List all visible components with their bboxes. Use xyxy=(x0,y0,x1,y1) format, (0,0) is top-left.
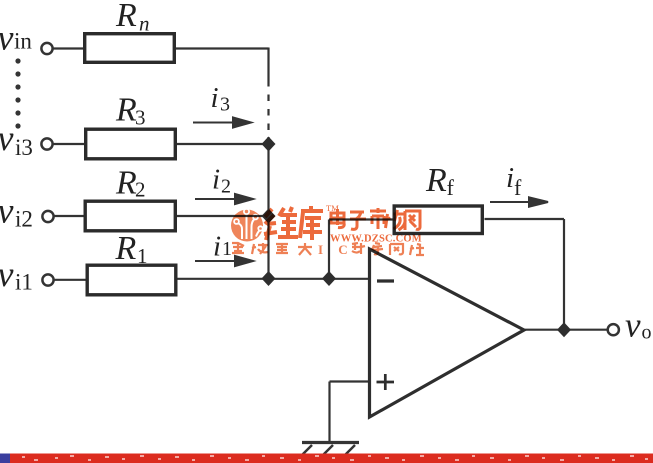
svg-text:R: R xyxy=(425,162,447,199)
svg-text:i: i xyxy=(211,82,219,114)
svg-text:2: 2 xyxy=(135,178,146,202)
svg-text:v: v xyxy=(0,254,14,294)
svg-text:f: f xyxy=(447,175,455,200)
svg-text:3: 3 xyxy=(135,106,146,130)
svg-text:R: R xyxy=(115,165,137,202)
svg-text:i: i xyxy=(506,162,514,194)
svg-text:in: in xyxy=(14,29,32,54)
svg-text:v: v xyxy=(0,118,14,158)
svg-text:1: 1 xyxy=(222,238,232,260)
svg-text:v: v xyxy=(0,18,14,58)
svg-text:i2: i2 xyxy=(15,207,33,232)
svg-text:v: v xyxy=(0,191,14,231)
svg-text:1: 1 xyxy=(137,244,148,268)
svg-text:v: v xyxy=(625,306,641,345)
svg-text:o: o xyxy=(642,322,652,344)
svg-text:i1: i1 xyxy=(15,270,33,295)
svg-text:n: n xyxy=(139,12,150,36)
svg-text:R: R xyxy=(115,0,137,34)
svg-text:3: 3 xyxy=(220,94,230,116)
svg-text:R: R xyxy=(115,91,137,128)
svg-text:R: R xyxy=(115,230,137,267)
svg-text:i: i xyxy=(212,164,220,196)
svg-text:2: 2 xyxy=(221,176,231,198)
svg-text:i: i xyxy=(213,231,221,263)
svg-text:I C: I C xyxy=(318,242,354,257)
svg-text:i3: i3 xyxy=(15,135,33,160)
svg-text:f: f xyxy=(514,175,522,200)
